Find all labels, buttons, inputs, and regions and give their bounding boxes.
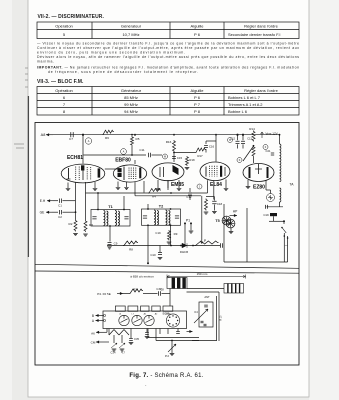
svg-text:P1: P1	[186, 219, 190, 223]
svg-text:Bobine L 6: Bobine L 6	[228, 109, 248, 114]
svg-text:T1: T1	[108, 205, 112, 209]
svg-text:C12: C12	[186, 195, 192, 199]
svg-text:∼: ∼	[284, 244, 287, 248]
svg-text:de fréquence, sous peine de dé: de fréquence, sous peine de désaccorder …	[48, 70, 198, 74]
svg-text:C16: C16	[209, 145, 215, 149]
svg-text:VII-2. — DISCRIMINATEUR.: VII-2. — DISCRIMINATEUR.	[38, 14, 105, 20]
svg-text:VII-3. — BLOC F.M.: VII-3. — BLOC F.M.	[37, 79, 84, 85]
svg-text:R18: R18	[189, 158, 195, 162]
svg-text:Continuer à visser et observer: Continuer à visser et observer que l'aig…	[37, 46, 299, 50]
svg-text:C9: C9	[114, 242, 118, 246]
svg-text:P 7: P 7	[194, 102, 201, 107]
svg-text:Opération: Opération	[55, 88, 73, 93]
svg-text:C13: C13	[247, 138, 252, 141]
svg-text:Dévisser alors le noyau, afin: Dévisser alors le noyau, afin de ramener…	[37, 55, 299, 59]
svg-text:C35: C35	[134, 337, 139, 341]
svg-text:10,7 MHz: 10,7 MHz	[122, 32, 139, 37]
svg-text:99 MHz: 99 MHz	[124, 102, 138, 107]
svg-text:R8: R8	[129, 247, 133, 251]
svg-text:GE: GE	[40, 211, 46, 215]
svg-text:R16: R16	[166, 140, 172, 144]
svg-text:C11: C11	[139, 148, 145, 152]
svg-text:C2: C2	[58, 215, 62, 219]
svg-text:C12: C12	[230, 138, 235, 141]
svg-text:ECH81: ECH81	[67, 155, 83, 161]
svg-text:— Visser le noyau du secondair: — Visser le noyau du secondaire du derni…	[37, 42, 299, 46]
svg-text:94 MHz: 94 MHz	[124, 109, 138, 114]
svg-text:environs du zéro, puis marque: environs du zéro, puis marque une second…	[37, 51, 185, 55]
svg-text:A8: A8	[41, 133, 46, 137]
svg-text:Régler dans l'ordre: Régler dans l'ordre	[244, 23, 278, 28]
svg-text:C15: C15	[177, 156, 183, 160]
svg-text:Opération: Opération	[55, 23, 73, 28]
svg-text:R.10: R.10	[221, 315, 223, 321]
svg-text:EL84: EL84	[210, 182, 222, 188]
svg-text:C30: C30	[156, 287, 162, 291]
svg-text:Aiguille: Aiguille	[191, 88, 205, 93]
svg-text:4,7: 4,7	[121, 351, 125, 355]
svg-text:P 6: P 6	[194, 95, 201, 100]
svg-text:R17: R17	[197, 154, 203, 158]
svg-text:M: M	[164, 155, 166, 158]
svg-text:B: B	[92, 314, 94, 318]
svg-text:R2: R2	[69, 222, 73, 226]
svg-text:Générateur: Générateur	[121, 23, 142, 28]
svg-text:Secondaire dernier transfo F.I: Secondaire dernier transfo F.I	[228, 32, 280, 37]
svg-text:R9: R9	[174, 232, 178, 236]
svg-text:EM85: EM85	[171, 182, 184, 188]
svg-text:C18: C18	[217, 202, 223, 206]
svg-text:Générateur: Générateur	[121, 88, 142, 93]
svg-text:IMPORTANT. — Ne jamais retouch: IMPORTANT. — Ne jamais retoucher les rég…	[37, 66, 299, 70]
svg-text:A6: A6	[91, 331, 95, 335]
svg-text:RAD.B: RAD.B	[180, 250, 188, 254]
svg-text:150 mm: 150 mm	[197, 272, 208, 276]
svg-text:T5: T5	[215, 219, 219, 223]
svg-text:EC85: EC85	[163, 312, 170, 316]
svg-text:C21: C21	[266, 149, 271, 153]
svg-text:C1: C1	[58, 203, 62, 207]
svg-text:P 6: P 6	[194, 32, 201, 37]
svg-text:85 MHz: 85 MHz	[124, 95, 138, 100]
svg-text:P 8: P 8	[194, 109, 201, 114]
svg-text:C19: C19	[263, 213, 269, 217]
svg-text:T2: T2	[159, 204, 163, 208]
svg-text:E.H: E.H	[40, 199, 46, 203]
svg-text:P.2: P.2	[165, 354, 169, 358]
svg-text:Fig. 7. - Schéma R.A. 61.: Fig. 7. - Schéma R.A. 61.	[129, 373, 203, 379]
svg-text:CM: CM	[91, 341, 96, 345]
svg-text:C4: C4	[194, 310, 198, 314]
svg-text:Régler dans l'ordre: Régler dans l'ordre	[244, 88, 278, 93]
svg-text:maxima.: maxima.	[37, 60, 54, 64]
svg-text:Bobines L 6 et L 7: Bobines L 6 et L 7	[228, 95, 261, 100]
svg-text:à 658 c/s environ: à 658 c/s environ	[130, 275, 154, 279]
svg-text:R21: R21	[133, 287, 139, 291]
svg-text:ANT: ANT	[204, 295, 210, 299]
svg-text:C7: C7	[69, 137, 73, 141]
svg-text:C19: C19	[155, 231, 161, 235]
svg-text:R6: R6	[105, 136, 109, 140]
svg-text:C34: C34	[111, 351, 116, 355]
svg-text:R5: R5	[136, 137, 140, 141]
svg-text:P4. F0 5E: P4. F0 5E	[97, 292, 111, 296]
svg-text:C10: C10	[150, 253, 156, 257]
svg-text:EZ80: EZ80	[253, 184, 265, 190]
svg-text:R4: R4	[152, 195, 156, 199]
svg-text:Trimmers A 1 et A 2: Trimmers A 1 et A 2	[228, 102, 263, 107]
svg-text:EBF80: EBF80	[115, 158, 131, 164]
svg-text:Aiguille: Aiguille	[191, 23, 205, 28]
svg-text:R14: R14	[249, 127, 255, 131]
